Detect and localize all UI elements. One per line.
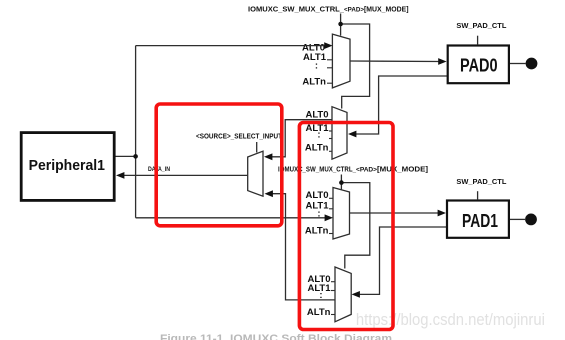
svg-text:SW_PAD_CTL: SW_PAD_CTL xyxy=(456,177,506,186)
svg-text:https://blog.csdn.net/mojinrui: https://blog.csdn.net/mojinrui xyxy=(356,311,545,329)
svg-text:ALTn: ALTn xyxy=(307,307,331,318)
svg-text:PAD0: PAD0 xyxy=(460,55,498,75)
svg-text::: : xyxy=(315,61,318,72)
svg-text:<PAD>: <PAD> xyxy=(356,167,377,174)
svg-text:Figure 11-1. IOMUXC Soft Block: Figure 11-1. IOMUXC Soft Block Diagram xyxy=(160,333,392,340)
svg-text:Peripheral1: Peripheral1 xyxy=(29,158,105,174)
svg-text::: : xyxy=(317,129,320,140)
svg-text:ALTn: ALTn xyxy=(305,143,329,154)
svg-text:SW_PAD_CTL: SW_PAD_CTL xyxy=(456,21,506,30)
svg-text:<PAD>: <PAD> xyxy=(344,6,364,13)
svg-text:ALT0: ALT0 xyxy=(305,190,328,201)
svg-text:ALTn: ALTn xyxy=(302,77,326,88)
svg-text:PAD1: PAD1 xyxy=(462,211,498,231)
svg-text:IOMUXC_SW_MUX_CTRL_: IOMUXC_SW_MUX_CTRL_ xyxy=(278,165,357,174)
svg-text:ALTn: ALTn xyxy=(305,226,329,237)
svg-text:IOMUXC_SW_MUX_CTRL_: IOMUXC_SW_MUX_CTRL_ xyxy=(248,4,345,13)
svg-text:DATA_IN: DATA_IN xyxy=(148,167,170,173)
svg-text:[MUX_MODE]: [MUX_MODE] xyxy=(364,4,409,13)
svg-text:<SOURCE>_SELECT_INPUT: <SOURCE>_SELECT_INPUT xyxy=(196,134,283,141)
svg-text:[MUX_MODE]: [MUX_MODE] xyxy=(377,165,429,174)
